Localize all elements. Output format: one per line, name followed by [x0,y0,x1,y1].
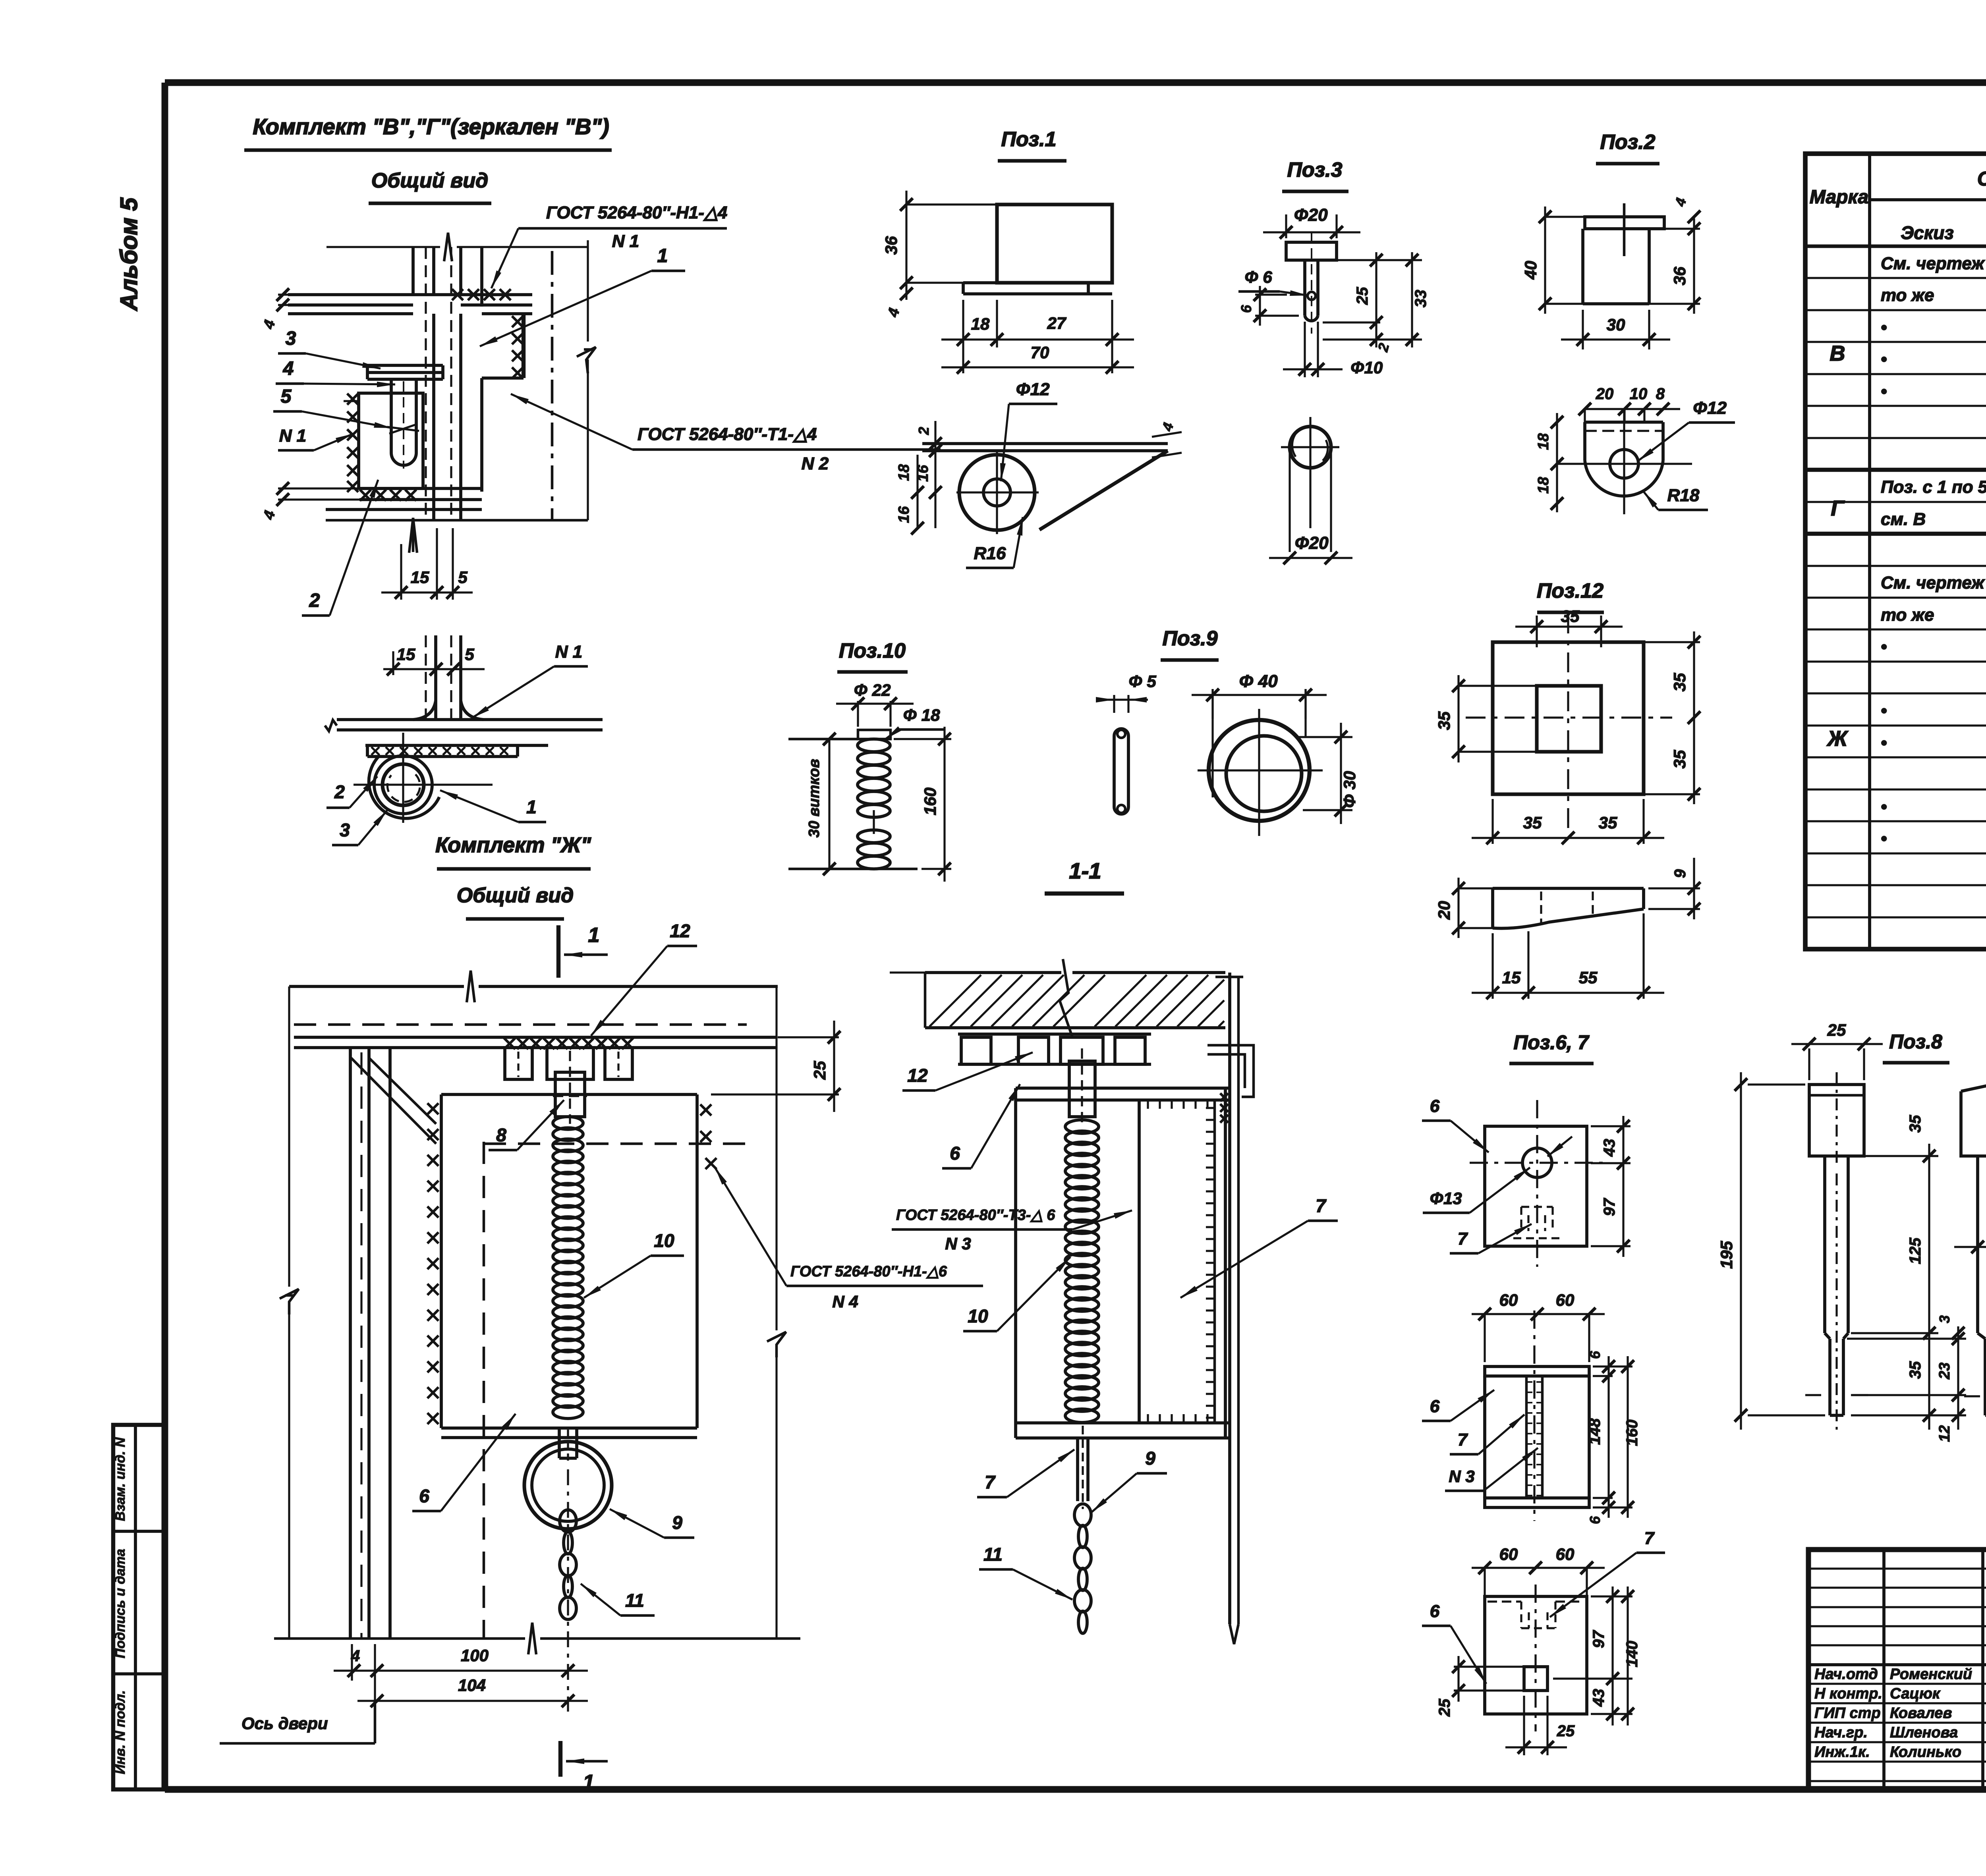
upper plate of assembly B [288,293,532,296]
svg-text:Эскиз: Эскиз [1901,222,1954,243]
chain pos.11 in section [1074,1504,1091,1526]
section mark 1 bottom [558,1741,562,1777]
dim 35 top [1536,616,1538,647]
svg-text:•: • [1881,382,1887,401]
dims 2 18 16 16 left of bracket [934,421,936,528]
svg-text:то же: то же [1881,286,1934,305]
serrated lining bottom [1147,1414,1149,1423]
svg-text:2: 2 [309,590,320,611]
bracket plate with R16 (pos.2 view) [922,442,1168,445]
svg-text:12: 12 [670,921,690,941]
svg-text:Нач.гр.: Нач.гр. [1814,1724,1868,1741]
weld x-marks on bracket [347,394,358,405]
hinge circle bracket of Ж [383,764,424,805]
dim 30 bottom [1582,310,1584,349]
door corner diagonals [351,1058,436,1144]
dim 40 left [1545,216,1585,218]
hidden dashed line of lintel [294,1023,747,1026]
right angle upright [1228,973,1231,1624]
wedge pos.12 side view [1493,887,1644,890]
dim 25 bottom of bottom view [1523,1696,1525,1755]
svg-text:43: 43 [1601,1139,1618,1157]
svg-text:7: 7 [1458,1229,1468,1249]
svg-text:Φ 5: Φ 5 [1128,672,1156,691]
svg-text:60: 60 [1499,1291,1518,1309]
table header lines [1868,154,1871,949]
svg-text:36: 36 [882,236,900,255]
svg-text:18: 18 [896,464,912,481]
washer pos.4 plate [367,364,443,367]
svg-text:195: 195 [1717,1241,1736,1269]
dim 195 left [1748,1083,1805,1085]
svg-text:36: 36 [1670,266,1689,285]
angle pos.2 top plate [1585,217,1664,229]
svg-text:•: • [1881,733,1887,753]
chain pos.11 in door drawing [567,1469,569,1631]
dim 25 right of door top [778,1036,839,1038]
dim 36 right [1664,228,1700,230]
table outer border [1805,154,1986,949]
svg-text:N 1: N 1 [279,426,306,446]
svg-text:Φ20: Φ20 [1294,533,1329,553]
round bar Ф20 section view [1290,427,1331,468]
svg-text:Φ 40: Φ 40 [1239,672,1278,691]
top plate of assembly Ж [325,720,337,731]
title block vertical lines left part [1882,1550,1886,1789]
svg-text:N 3: N 3 [1449,1467,1474,1486]
svg-text:•: • [1881,349,1887,369]
svg-text:N 3: N 3 [945,1234,971,1253]
svg-text:60: 60 [1499,1545,1518,1563]
svg-text:Поз.8: Поз.8 [1889,1031,1942,1053]
dims 15 and 5 bottom of assembly B [400,544,402,600]
door panel pos.6 [441,1093,697,1096]
svg-text:33: 33 [1412,290,1430,308]
svg-text:25: 25 [1436,1698,1453,1717]
slab left break edge [890,971,925,973]
slab hatch lines [929,975,981,1027]
left stamp column Взам/Подпись/Инв [113,1425,165,1789]
top bracket pair pos.12 [505,1048,532,1079]
dim 160 of spring [894,738,951,740]
svg-text:6: 6 [1587,1351,1603,1359]
dim 6 left [1255,293,1287,295]
dims 6 148 160 6 right of middle view [1593,1365,1632,1367]
svg-text:Поз.2: Поз.2 [1600,131,1655,154]
section mark 1 top [556,925,560,978]
svg-text:Ж: Ж [1826,727,1849,751]
dim 4 top right [1688,210,1700,223]
svg-text:1: 1 [588,924,600,947]
svg-text:125: 125 [1907,1237,1924,1264]
serrated lining top [1147,1100,1149,1109]
svg-text:Нач.отд: Нач.отд [1814,1666,1878,1683]
svg-text:11: 11 [625,1590,644,1611]
svg-text:2: 2 [334,782,345,802]
svg-text:30 витков: 30 витков [806,759,823,838]
dims 4 / 100 bottom [351,1644,353,1681]
svg-text:10: 10 [654,1230,674,1251]
right thin boundary [587,240,589,342]
bolt pos.3 [1286,242,1337,260]
dims 25 33 2 right [1323,259,1422,261]
svg-text:1: 1 [526,797,537,817]
top wall line [289,985,464,988]
lintel lower edges [294,1036,777,1039]
dim 25 left of bottom view [1454,1666,1524,1668]
svg-text:6: 6 [1430,1397,1440,1416]
svg-text:Поз.12: Поз.12 [1537,579,1603,602]
svg-text:140: 140 [1623,1641,1641,1668]
dim 4 left [900,288,913,300]
svg-text:15: 15 [411,568,429,587]
svg-text:N 1: N 1 [612,232,639,251]
dims 35 35 bottom [1491,799,1493,844]
ring pos.9 [1209,720,1310,821]
svg-text:Взам. инд. N: Взам. инд. N [113,1437,128,1521]
svg-text:16: 16 [896,506,912,523]
svg-text:23: 23 [1936,1363,1953,1380]
svg-text:7: 7 [1644,1529,1655,1548]
svg-text:6: 6 [1238,305,1254,313]
svg-text:25: 25 [1557,1722,1575,1740]
dim 4 upper-left [278,293,288,295]
svg-text:20: 20 [1596,385,1614,403]
svg-text:35: 35 [1670,673,1689,691]
door section left edge [1014,1088,1017,1438]
svg-text:25: 25 [810,1061,829,1080]
dim 104 bottom [357,1700,588,1702]
door section web [1138,1100,1141,1423]
floor line [326,519,588,522]
svg-text:Инв. N подл.: Инв. N подл. [113,1690,128,1774]
svg-text:16: 16 [915,465,931,482]
svg-text:18: 18 [971,315,990,333]
dims 35 35 right [1644,641,1700,643]
svg-text:Сацюк: Сацюк [1890,1685,1941,1702]
svg-text:70: 70 [1031,343,1049,362]
spring-to-ring connector [558,1429,561,1458]
dim 36 left [906,203,1001,205]
svg-text:3: 3 [340,820,350,840]
door section bottom flange [1016,1421,1230,1424]
svg-text:7: 7 [1458,1430,1468,1449]
right boundary line of door drawing [775,986,777,1330]
svg-text:4: 4 [283,358,294,379]
svg-text:6: 6 [1430,1096,1440,1116]
clip profile top right [1207,1045,1254,1097]
weld xxx on upright [1220,1093,1228,1101]
door section right wall [1224,1088,1227,1438]
svg-text:Φ12: Φ12 [1693,398,1727,418]
svg-text:Φ 6: Φ 6 [1244,268,1272,286]
svg-text:2: 2 [916,427,932,435]
svg-text:Подпись и дата: Подпись и дата [113,1549,128,1658]
svg-text:18: 18 [1535,477,1552,494]
weld x-marks strip on plate Ж [367,755,518,758]
svg-text:20: 20 [1435,901,1453,920]
weld x-marks on upper plate [452,289,463,300]
svg-text:•: • [1881,637,1887,656]
svg-text:Поз.10: Поз.10 [839,639,906,662]
svg-text:Общий вид: Общий вид [371,169,489,192]
hidden channel profile in plate 6 [1521,1206,1553,1208]
svg-text:10: 10 [1630,385,1648,403]
top thin boundary line [326,246,440,248]
spring pos.10 in section [1065,1120,1099,1133]
svg-text:6: 6 [419,1486,429,1506]
rod pos.3 with cotter pin pos.5 [390,379,393,453]
lower plates of assembly B [359,487,482,490]
svg-text:60: 60 [1556,1291,1575,1309]
svg-text:35: 35 [1670,750,1689,768]
dims 18 18 left of hook [1556,413,1558,512]
svg-text:Φ10: Φ10 [1350,358,1383,377]
hidden lines inside door panel [483,1142,485,1639]
table body horizontal lines [1805,277,1986,279]
svg-text:ГОСТ 5264-80″-Н1-△4: ГОСТ 5264-80″-Н1-△4 [546,203,727,222]
svg-text:Ось двери: Ось двери [241,1714,328,1733]
svg-text:35: 35 [1599,813,1617,832]
svg-text:то же: то же [1881,605,1934,625]
svg-text:25: 25 [1827,1021,1846,1039]
plate pos.6 bottom view [1485,1596,1587,1714]
ceiling plates under slab [958,1033,1151,1036]
dim Ф30 of ring [1299,736,1352,738]
dim Ф20 of section [1289,447,1291,552]
svg-text:ГОСТ 5264-80″-Т1-△4: ГОСТ 5264-80″-Т1-△4 [638,425,817,444]
svg-text:5: 5 [465,645,474,664]
svg-text:7: 7 [985,1472,996,1492]
svg-text:4: 4 [351,1647,360,1665]
svg-text:Φ 22: Φ 22 [854,681,891,699]
hook plate outline [1585,421,1663,424]
angle pos.2 body [1581,229,1584,304]
svg-text:ГОСТ 5264-80″-Т3-△ 6: ГОСТ 5264-80″-Т3-△ 6 [896,1207,1055,1224]
svg-text:3: 3 [1936,1315,1953,1323]
bolt pos.8 in section [1069,1061,1095,1117]
svg-text:см. В: см. В [1881,510,1926,529]
svg-text:N 4: N 4 [832,1292,858,1311]
svg-text:N 1: N 1 [555,642,582,662]
svg-text:40: 40 [1521,261,1540,280]
ground line of door drawing [274,1637,525,1640]
bolt pos.8 right view (wedge head) [1961,1079,1986,1156]
svg-text:148: 148 [1586,1418,1603,1445]
svg-text:97: 97 [1590,1630,1607,1648]
svg-text:1: 1 [657,245,668,266]
svg-text:Φ20: Φ20 [1294,205,1328,225]
weld x-marks above bracket [504,1038,515,1049]
svg-text:15: 15 [1502,968,1521,987]
svg-text:ГИП стр: ГИП стр [1814,1705,1881,1722]
svg-text:43: 43 [1590,1689,1607,1707]
svg-text:6: 6 [1430,1602,1440,1621]
svg-text:6: 6 [1587,1516,1603,1524]
svg-text:•: • [1881,701,1887,720]
svg-text:35: 35 [1523,813,1542,832]
ring pos.9 in door drawing [524,1442,612,1529]
bar pos.7 with plates 6 front view [1485,1366,1589,1376]
svg-text:11: 11 [983,1544,1003,1565]
dims 43 97 right of plate 6 [1591,1125,1631,1127]
bolt pos.8 left view [1809,1085,1864,1156]
angle pos.1 front view [997,205,1112,283]
svg-text:Ковалев: Ковалев [1890,1705,1952,1722]
dims 15 55 bottom of wedge [1491,933,1493,999]
svg-text:Поз.9: Поз.9 [1162,627,1217,650]
svg-text:100: 100 [461,1646,489,1665]
hanger brackets in section [961,1037,991,1064]
spring pos.10 detail [788,738,858,741]
svg-text:R18: R18 [1667,486,1700,505]
dim ticks right of bracket [1152,432,1182,437]
svg-text:1-1: 1-1 [1069,858,1101,883]
bracket pos.2 [359,393,423,488]
svg-text:Н контр.: Н контр. [1814,1685,1882,1702]
svg-text:5: 5 [458,568,468,587]
svg-text:12: 12 [1936,1425,1953,1442]
svg-text:8: 8 [1656,385,1665,403]
svg-text:12: 12 [907,1065,928,1086]
column of assembly Ж [434,635,437,721]
weld x-marks on panel right [700,1104,711,1116]
svg-text:Колинько: Колинько [1890,1744,1961,1760]
svg-text:ГОСТ 5264-80″-Н1-△6: ГОСТ 5264-80″-Н1-△6 [790,1263,947,1280]
plate pos.6 top view [1485,1126,1587,1246]
svg-text:Комплект "Ж": Комплект "Ж" [435,833,591,857]
svg-text:•: • [1881,829,1887,848]
svg-text:9: 9 [1671,869,1689,878]
svg-text:В: В [1830,342,1845,365]
svg-text:Роменский: Роменский [1890,1666,1972,1683]
svg-text:См. чертеж: См. чертеж [1881,254,1985,273]
svg-text:35: 35 [1907,1361,1924,1379]
svg-text:Φ 30: Φ 30 [1340,771,1359,808]
svg-text:10: 10 [968,1306,988,1326]
svg-text:35: 35 [1561,607,1580,625]
left wall verticals [288,986,290,1287]
svg-text:Поз.1: Поз.1 [1001,128,1056,151]
dim Ф10 bottom [1304,322,1306,377]
title block outer [1808,1550,1986,1789]
plate pos.12 plan [1493,642,1644,794]
svg-text:•: • [1881,318,1887,337]
svg-text:Поз.6, 7: Поз.6, 7 [1513,1031,1589,1054]
svg-text:Инж.1к.: Инж.1к. [1814,1744,1870,1760]
svg-text:160: 160 [921,787,939,815]
spring pos.10 in door drawing [553,1117,583,1129]
svg-text:Поз. с 1 по 5: Поз. с 1 по 5 [1881,477,1986,497]
svg-text:8: 8 [496,1125,506,1145]
svg-text:7: 7 [1316,1195,1327,1216]
svg-text:27: 27 [1047,314,1066,332]
dim 20 left of wedge [1459,887,1493,889]
svg-text:Шленова: Шленова [1890,1724,1958,1741]
svg-text:15: 15 [397,645,415,664]
svg-text:160: 160 [1623,1420,1641,1446]
svg-text:Φ13: Φ13 [1430,1189,1462,1208]
dims 97 140 43 right of bottom view [1591,1595,1632,1597]
svg-text:60: 60 [1556,1545,1575,1563]
plate pos.1 [522,314,525,378]
svg-text:Марка: Марка [1810,187,1868,208]
svg-text:97: 97 [1601,1198,1618,1216]
svg-text:104: 104 [458,1676,486,1695]
svg-text:N 2: N 2 [802,454,829,473]
svg-text:55: 55 [1579,968,1598,987]
dim 35 left [1459,685,1537,687]
svg-text:Г: Г [1831,496,1845,520]
svg-text:Общий вид: Общий вид [457,884,574,907]
dim 5 top right [1950,1091,1961,1092]
svg-text:R16: R16 [974,544,1006,563]
svg-text:9: 9 [672,1512,682,1533]
dims 35 125 35 middle [1851,1155,1938,1157]
svg-text:6: 6 [950,1143,960,1164]
svg-text:35: 35 [1907,1115,1924,1133]
svg-text:Сечение: Сечение [1977,168,1986,190]
dim 9 right of wedge [1648,887,1700,889]
svg-text:25: 25 [1354,287,1371,305]
column (wall) of assembly B [411,247,415,296]
svg-text:•: • [1881,797,1887,816]
weld x-marks on panel left [427,1103,439,1114]
svg-text:Φ 18: Φ 18 [903,706,941,724]
svg-text:30: 30 [1607,315,1625,334]
svg-text:3: 3 [286,328,296,349]
dims 18 27 70 bottom [962,300,964,373]
svg-text:Поз.3: Поз.3 [1287,158,1342,181]
dims 3 23 12 middle2 [1957,1326,1959,1430]
door section top flange [1016,1087,1230,1090]
dim 4 lower-left [278,487,359,489]
slab with hatching [925,971,1061,974]
title block thin rows left [1808,1567,1986,1569]
bolt pos.8 head in door drawing [555,1072,585,1117]
rod pos.7 under spring [1076,1438,1079,1501]
pin pos.9 (rod) [1114,729,1128,814]
serrated lining right [1213,1100,1216,1423]
svg-text:См. чертеж: См. чертеж [1881,573,1985,593]
svg-text:5: 5 [281,386,292,407]
svg-text:35: 35 [1435,711,1453,730]
svg-text:Комплект "В","Г"(зеркален "В"): Комплект "В","Г"(зеркален "В") [253,114,609,139]
svg-text:1: 1 [583,1771,595,1794]
svg-text:Альбом 5: Альбом 5 [116,197,142,311]
svg-text:9: 9 [1145,1448,1155,1469]
svg-text:18: 18 [1535,433,1552,450]
svg-text:Φ12: Φ12 [1016,380,1050,399]
axis dashed line [551,251,554,520]
